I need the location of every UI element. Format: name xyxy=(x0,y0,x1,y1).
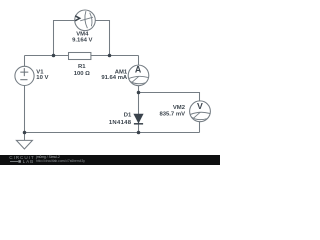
wire AM1 top drop xyxy=(138,56,140,66)
wire diode branch xyxy=(138,93,140,133)
svg-text:LAB: LAB xyxy=(23,159,35,164)
svg-text:VM4: VM4 xyxy=(76,31,89,37)
node junction R1 / VM4 right xyxy=(108,54,112,58)
watermark logo CIRCUIT LAB xyxy=(9,155,34,164)
voltmeter VM2 xyxy=(190,101,211,122)
svg-text:A: A xyxy=(135,65,142,75)
node junction V1 bottom rail / ground xyxy=(23,131,27,135)
wire VM4 left branch xyxy=(54,21,75,56)
svg-text:835.7 mV: 835.7 mV xyxy=(159,111,185,117)
svg-text:R1: R1 xyxy=(78,64,86,70)
svg-text:10 V: 10 V xyxy=(36,75,48,81)
svg-text:9.164 V: 9.164 V xyxy=(72,38,92,44)
ground xyxy=(16,140,32,149)
voltage source V1 xyxy=(15,66,34,85)
svg-text:D1: D1 xyxy=(124,112,132,118)
wire ground stem xyxy=(24,133,26,141)
wire main top rail from V1 to AM1 corner xyxy=(25,55,139,57)
wire VM2 bottom xyxy=(199,122,201,133)
wire VM4 right branch xyxy=(95,21,109,56)
wire node to VM2 top xyxy=(139,93,200,102)
wire V1 bottom stem xyxy=(24,85,26,132)
node junction VM4 left / R1 xyxy=(52,54,56,58)
wire bottom rail xyxy=(25,132,200,134)
svg-text:V: V xyxy=(197,101,203,111)
voltmeter VM4 xyxy=(75,10,96,31)
svg-text:htto://circuitlab.com/c/7s6bem: htto://circuitlab.com/c/7s6bem43y xyxy=(36,159,85,163)
svg-text:100 Ω: 100 Ω xyxy=(74,71,90,77)
resistor R1 xyxy=(69,53,91,60)
diode D1 xyxy=(134,114,143,124)
ammeter AM1 xyxy=(128,65,149,86)
wire V1 top stem xyxy=(24,56,26,67)
svg-text:91.64 mA: 91.64 mA xyxy=(101,75,128,81)
node junction AM1 / D1 / VM2 xyxy=(137,91,141,95)
svg-text:VM2: VM2 xyxy=(173,105,186,111)
svg-text:1N4148: 1N4148 xyxy=(109,120,132,126)
wire AM1 bottom to node xyxy=(138,86,140,93)
node junction D1 bottom rail xyxy=(137,131,141,135)
watermark bar xyxy=(0,155,220,165)
